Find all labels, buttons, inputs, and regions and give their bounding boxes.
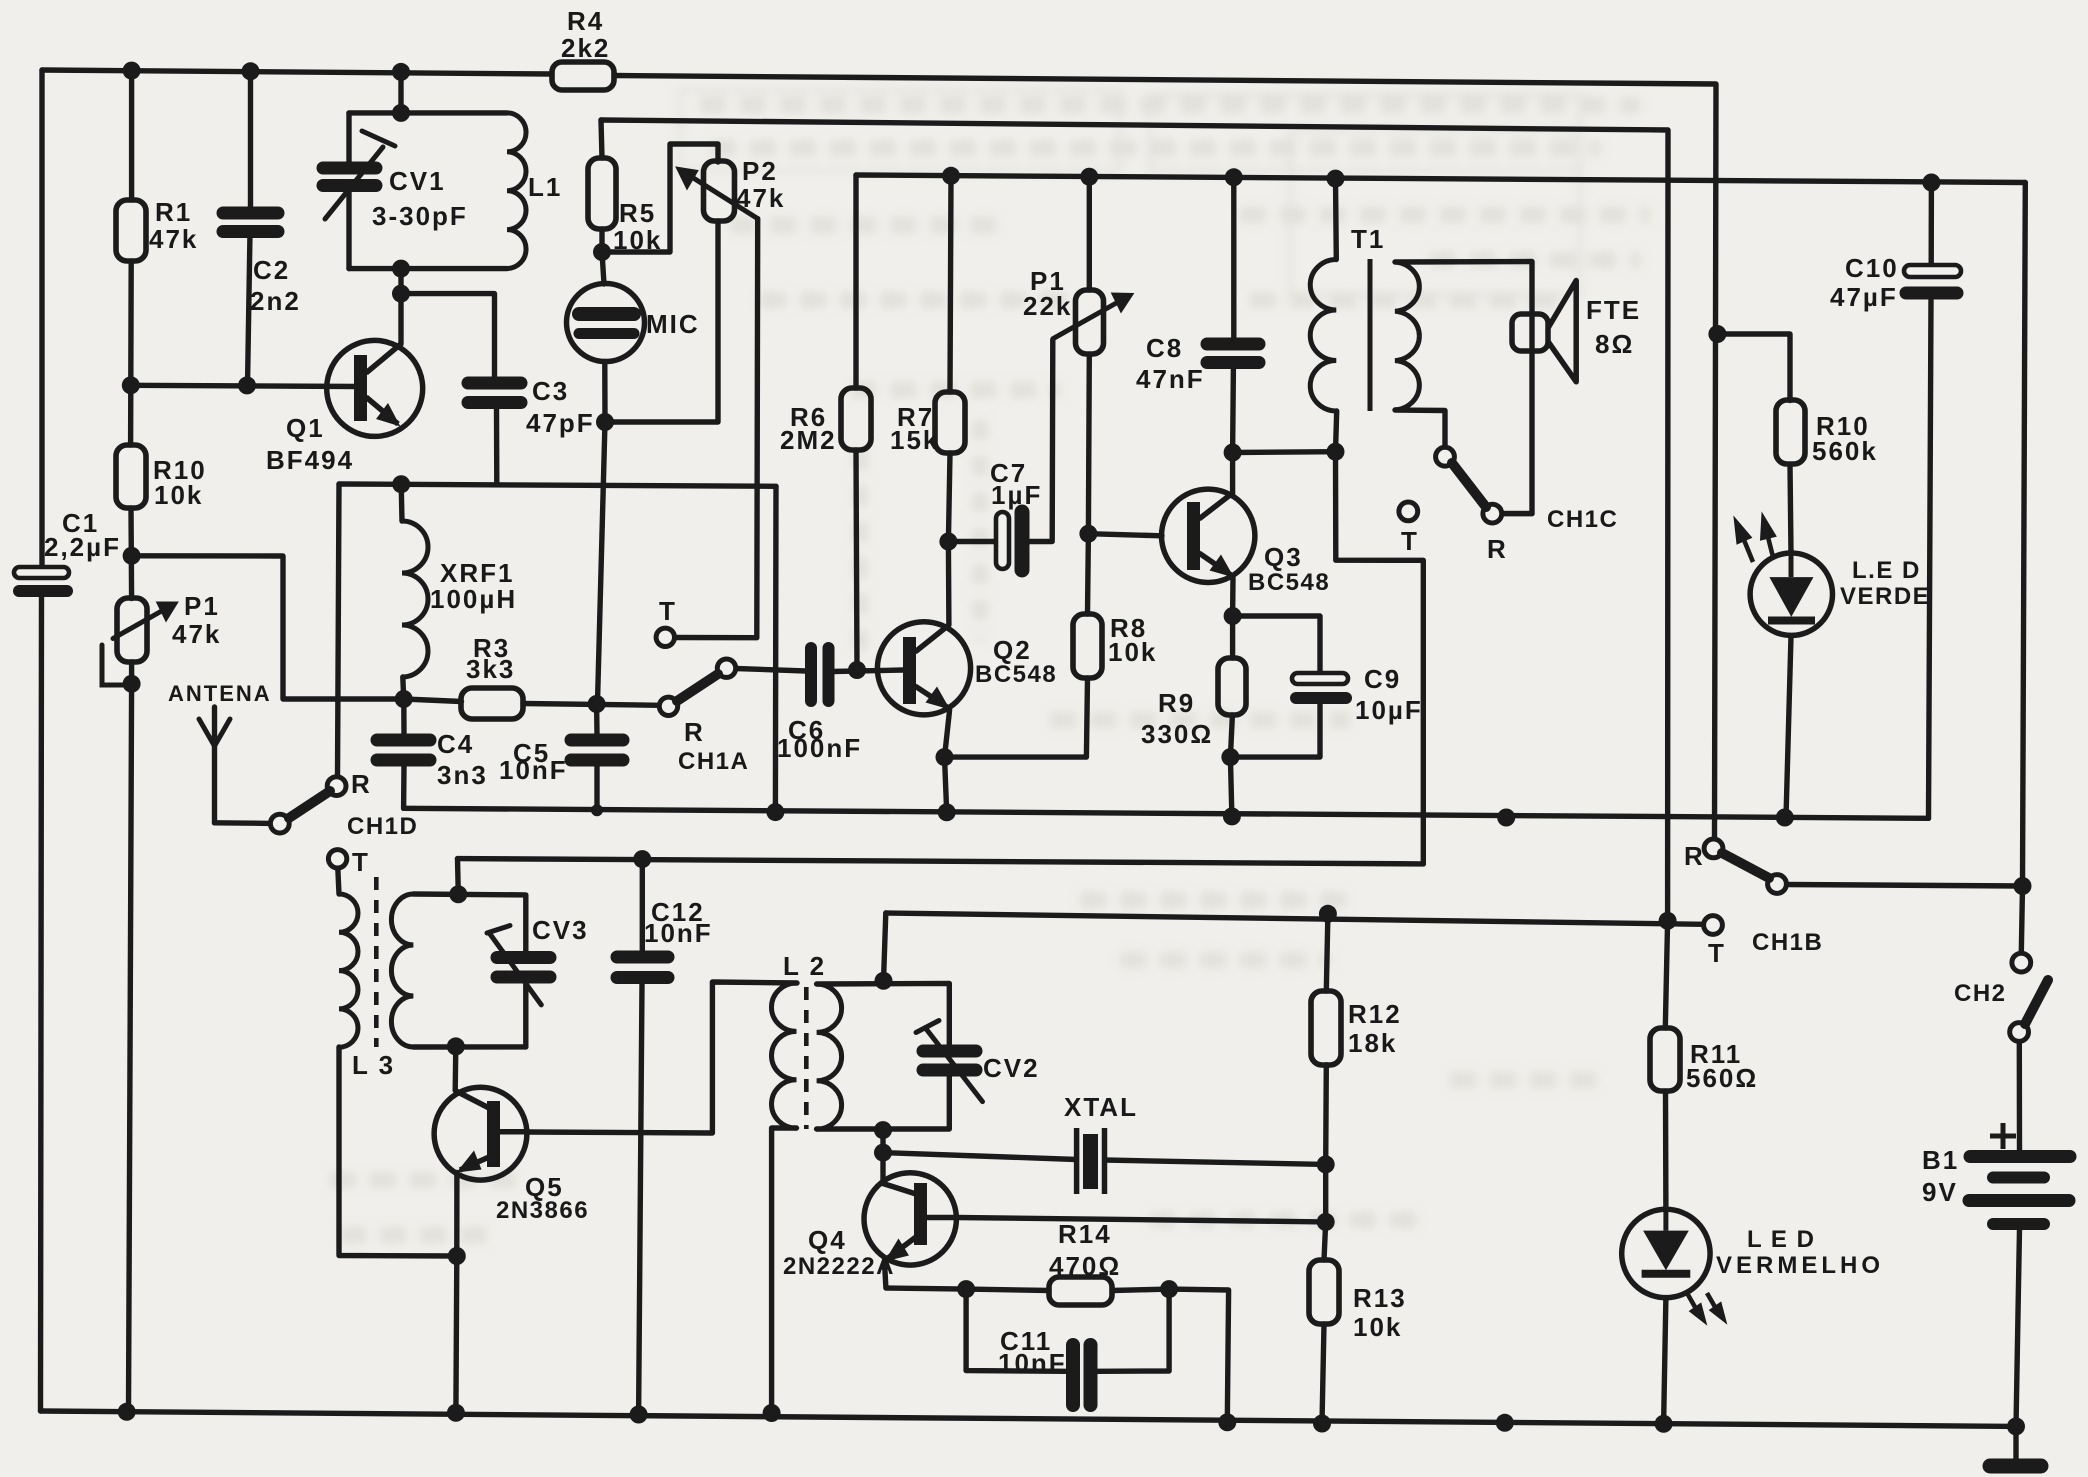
node: R5 / MIC (593, 243, 611, 261)
node: top rail / C2 (242, 62, 260, 80)
node: audio rail / P1 (1080, 168, 1098, 186)
potentiometer P1 (22k) wiper arrow (1053, 293, 1134, 339)
wire: top rail stub to tank loop (398, 71, 403, 113)
svg-text:T1: T1 (1351, 224, 1385, 254)
svg-text:10k: 10k (613, 225, 662, 255)
wire: T1 primary top stub (1333, 179, 1339, 260)
transformer T1 primary winding (1310, 260, 1336, 412)
transistor Q5 2N3866 (mirrored) (434, 1087, 527, 1180)
svg-text:Q4: Q4 (808, 1225, 847, 1255)
svg-text:10nF: 10nF (499, 755, 568, 785)
svg-text:C4: C4 (437, 729, 474, 759)
transistor Q1 BF494 (327, 340, 423, 436)
wire: T1 node down and around to L3 tank top rail (1336, 452, 1424, 864)
wire: R10 560k bottom to LED VERDE (1790, 465, 1791, 553)
LED VERDE emission arrows (1734, 513, 1776, 562)
wire: tee over to C9 top (1233, 616, 1320, 674)
node: Q2 base / C6 / R6 (848, 661, 866, 679)
svg-text:CH1A: CH1A (678, 748, 749, 775)
wire: R6 bottom to Q2 base node (856, 450, 857, 670)
LED VERMELHO (1622, 1209, 1727, 1324)
svg-text:C10: C10 (1845, 253, 1899, 283)
resistor R5 (588, 158, 616, 229)
resistor R7 (935, 392, 965, 453)
inductor XRF1 (402, 521, 428, 677)
svg-text:8Ω: 8Ω (1595, 329, 1634, 359)
switch CH1A (656, 628, 736, 715)
potentiometer P1 (left) wiper arrow and bracket (102, 602, 178, 685)
wire: P2 bottom to MIC bottom node (605, 221, 718, 422)
svg-text:100nF: 100nF (777, 733, 862, 763)
wire: R5 top stub (601, 120, 602, 158)
svg-text:Q1: Q1 (286, 413, 325, 443)
resistor R13 (1309, 1260, 1339, 1324)
capacitor CV2 (variable) (923, 1051, 976, 1070)
wire: Q1 base wire (131, 385, 356, 386)
wire: P1 bottom to R8/Q3 node (1086, 355, 1092, 534)
wire: R12 top lead (1326, 914, 1328, 991)
capacitor CV1 (variable) (323, 168, 376, 186)
svg-text:47k: 47k (149, 224, 198, 254)
node: T1 primary bottom (1327, 443, 1345, 461)
node: Q1 emitter / XRF1 (392, 475, 410, 493)
resistor R10 (560k, right) (1776, 400, 1805, 464)
svg-text:R: R (684, 717, 705, 747)
wire: MIC node to MIC top (602, 252, 604, 284)
svg-text:BF494: BF494 (266, 445, 354, 475)
battery plus sign (1990, 1123, 2016, 1149)
wire: C8 bottom to Q3 collector node (1230, 368, 1236, 453)
transformer L2 secondary winding (bumps outward right) (817, 984, 842, 1129)
node: audio rail / C10 (1922, 174, 1940, 192)
svg-text:T: T (659, 596, 677, 626)
wire: ground rail (404, 808, 1929, 818)
wire: top +V rail left of R4 (42, 70, 552, 74)
svg-text:C8: C8 (1146, 333, 1183, 363)
wire: Q5 collector lead up to tank bottom (453, 1046, 459, 1090)
svg-text:XTAL: XTAL (1064, 1092, 1138, 1122)
node: base wire / C2 (238, 376, 256, 394)
wire: R7 top lead (950, 176, 951, 392)
node: MIC bottom / P2 (596, 413, 614, 431)
node: R14 / C11 right (1160, 1280, 1178, 1298)
svg-text:560Ω: 560Ω (1686, 1063, 1758, 1093)
wire: left border vertical (battery minus rail) (39, 70, 44, 566)
node: Q2 emitter / R8 (936, 748, 954, 766)
node: audio rail / C8 (1225, 168, 1243, 186)
potentiometer P1 body (left) (117, 598, 147, 662)
svg-text:R13: R13 (1353, 1283, 1407, 1313)
svg-text:9V: 9V (1922, 1177, 1958, 1207)
wire: XTAL right lead to R12/R13 column (1105, 1160, 1326, 1164)
wire: C5 stub top (594, 704, 600, 734)
svg-text:FTE: FTE (1586, 295, 1641, 325)
wire: R12 bottom through XTAL and Q4 base nodes to R13 (1324, 1065, 1326, 1260)
wire: P1 22k top lead (1087, 177, 1092, 290)
wire: T1 secondary top through speaker to CH1C R (1395, 262, 1532, 514)
wire: Q4 collector drop (880, 1153, 885, 1184)
svg-text:R5: R5 (619, 198, 656, 228)
svg-text:Q3: Q3 (1264, 542, 1303, 572)
wire: CV1 branch lower (346, 190, 351, 269)
capacitor C10 (electrolytic) (1904, 265, 1961, 293)
node: C5 / ground rail (591, 804, 603, 816)
node: Q2 emitter / ground rail (938, 803, 956, 821)
node: bottom rail / ground drop (1496, 1414, 1514, 1432)
node: L2 secondary top tap (875, 972, 893, 990)
node: R9 / ground rail (1223, 807, 1241, 825)
wire: Q2 collector up to C7 node (946, 542, 952, 626)
capacitor C7 (electrolytic, white + black plate) (996, 512, 1022, 570)
wire: CH1B T rail (y916) (886, 913, 1704, 924)
wire: C3 bottom to emitter wire (494, 408, 500, 484)
node: Q5 emitter / L3 return (448, 1247, 466, 1265)
crystal XTAL (1077, 1128, 1105, 1194)
wire: CV1 branch upper (346, 113, 351, 163)
transformer L2 core (dashed) (804, 987, 809, 1129)
wire: C10 stub from audio +V rail (1928, 183, 1934, 266)
wire: C2 stub from top rail (248, 71, 253, 213)
wire: C5 stub bottom (594, 766, 599, 811)
wire: R3 right lead to C5 tee and CH1A R (523, 704, 660, 706)
wire: CH1B throw to right border (1787, 885, 2023, 887)
node: top rail / R1 (123, 62, 141, 80)
wire: Q5 base to L2 primary top (528, 982, 798, 1133)
svg-text:MIC: MIC (646, 309, 700, 339)
wire: P2 ground leg down to ground rail (773, 486, 779, 812)
capacitor C3 (468, 383, 521, 403)
potentiometer P1 body (22k) (1076, 290, 1104, 354)
resistor R4 (552, 62, 614, 90)
wire: audio +V rail (y175) (856, 175, 2025, 183)
svg-text:2k2: 2k2 (561, 33, 610, 63)
wire: R14 right lead to corner down (1112, 1289, 1228, 1422)
svg-text:470Ω: 470Ω (1049, 1251, 1121, 1281)
svg-text:R14: R14 (1058, 1219, 1112, 1249)
wire: Q1 emitter into XRF1 (399, 484, 405, 521)
battery B1 (1969, 1157, 2070, 1225)
node: P2 leg / ground rail (766, 803, 784, 821)
wire: right border down to CH1B throw junction and CH2 (2021, 183, 2025, 954)
wire: L2 secondary top rail to CV2 branch (817, 983, 950, 1045)
wire: Q4 emitter down to R14 node (885, 1262, 967, 1289)
switch CH2 (2010, 953, 2048, 1041)
node: CH1B T rail / R12 (1319, 905, 1337, 923)
node: R3 / C5 (588, 695, 606, 713)
svg-text:VERMELHO: VERMELHO (1716, 1252, 1884, 1279)
node: P1 bottom (123, 675, 141, 693)
svg-text:T: T (1401, 526, 1419, 556)
node: XRF1 / R3 / C4 (395, 690, 413, 708)
node: XTAL / R12-R13 column (1317, 1155, 1335, 1173)
svg-text:330Ω: 330Ω (1141, 719, 1213, 749)
wire: L3 tank top rail corner down to loop top (455, 859, 461, 895)
node: base wire / bias column (122, 376, 140, 394)
wire: LED VERDE cathode to ground rail (1786, 636, 1791, 818)
capacitor C9 (electrolytic horizontal plates) (1292, 673, 1348, 698)
node: R7 / C7 / Q2 collector (939, 533, 957, 551)
switch CH1D (270, 777, 346, 833)
wire: R13 bottom to bottom rail (1322, 1324, 1324, 1424)
resistor R1 (116, 200, 146, 261)
capacitor C11 (vertical plates) (1073, 1345, 1091, 1405)
node: P1 / R8 / Q3 base (1079, 525, 1097, 543)
resistor R8 (1073, 614, 1102, 678)
svg-text:R9: R9 (1158, 688, 1195, 718)
resistor R3 (461, 688, 523, 719)
node: Q3 collector / C8 (1224, 444, 1242, 462)
svg-text:47µF: 47µF (1830, 282, 1898, 312)
inductor L1 (507, 113, 526, 269)
svg-text:ANTENA: ANTENA (168, 681, 272, 706)
wire: battery minus to bottom rail and terminal (2016, 1229, 2020, 1461)
node: +V vertical / R10 560k stub (1708, 325, 1726, 343)
svg-text:2,2µF: 2,2µF (44, 532, 121, 562)
node: Q4 base / R12-R13 column (1317, 1213, 1335, 1231)
svg-text:L 2: L 2 (783, 951, 826, 981)
LED VERDE (1734, 513, 1833, 635)
battery negative terminal bar (1990, 1459, 2041, 1474)
wire: C2 bottom to Q1 base wire (248, 232, 251, 385)
wire: node to R8 top (1085, 534, 1091, 614)
node: bias column / antenna net (123, 547, 141, 565)
wire: CH1C R to speaker line (1502, 511, 1532, 516)
svg-text:2N2222A: 2N2222A (783, 1253, 895, 1280)
svg-text:3k3: 3k3 (466, 654, 515, 684)
svg-text:R4: R4 (567, 6, 604, 36)
transistor Q3 BC548 (1162, 489, 1255, 582)
svg-text:VERDE: VERDE (1840, 583, 1930, 610)
wire: R14 left lead (966, 1289, 1049, 1290)
wire: R10 bottom through node to P1 top (128, 508, 134, 599)
CV1 adjust arrow (325, 147, 383, 219)
wire: Q3 emitter down to R9/C9 tee (1230, 578, 1236, 616)
potentiometer P2 wiper arrow (676, 167, 758, 219)
node: bottom rail / L2 primary (763, 1404, 781, 1422)
svg-text:1µF: 1µF (991, 480, 1042, 510)
capacitor C1 (electrolytic) (14, 567, 69, 591)
svg-text:CH1B: CH1B (1752, 929, 1823, 956)
node: CH1B throw / right border (2014, 877, 2032, 895)
wire: R5 bottom to MIC node (599, 229, 604, 252)
wire: C11 left loop (966, 1289, 1065, 1371)
transformer L3 primary winding (left, bumps inward) (339, 894, 358, 1047)
wire: LED VERMELHO cathode to bottom rail (1664, 1298, 1666, 1424)
svg-text:100µH: 100µH (430, 584, 517, 614)
svg-text:R: R (351, 769, 372, 799)
wire: C4 bottom to ground rail corner (401, 766, 407, 809)
transformer L2 primary winding (bumps outward left) (772, 983, 797, 1128)
wire: C4 stub top (401, 699, 407, 734)
wire: C12 bottom to bottom rail (639, 984, 642, 1415)
node: bottom rail / R13 (1313, 1415, 1331, 1433)
wire: P2 wiper leg down to CH1A T (675, 219, 758, 638)
CV2 adjust arrow (926, 1028, 983, 1101)
wire: XRF1 bottom (400, 677, 406, 699)
svg-text:L.E D: L.E D (1852, 557, 1921, 584)
svg-text:560k: 560k (1812, 436, 1878, 466)
node: R9 / C9 bottom (1221, 748, 1239, 766)
wire: tank bottom to C3 tee and Q1 collector (398, 269, 403, 344)
node: bottom rail / battery (2007, 1417, 2025, 1435)
wire: emitter rail left leg down to CH1D R (338, 484, 340, 777)
node: top rail / tank (392, 63, 410, 81)
wire: antenna stem (212, 707, 217, 823)
transformer L3 core (dashed) (374, 877, 379, 1047)
wire: CV2 bottom to L2 secondary bottom (817, 1075, 950, 1129)
terminal T of CH1D (to transmit oscillator) (328, 850, 346, 868)
transformer L3 secondary winding (right, bumps inward) (391, 894, 413, 1047)
svg-text:P2: P2 (742, 156, 778, 186)
svg-text:C3: C3 (532, 376, 569, 406)
resistor R11 (1650, 1028, 1680, 1091)
wire: T/R11 rail (y120) and right leg down (601, 120, 1668, 1028)
wire: Q5 emitter lead down (454, 1173, 460, 1257)
wire: L3 primary bottom to Q5 emitter node (339, 1047, 457, 1256)
speaker FTE (1512, 281, 1576, 382)
node: tank rail / C12 (633, 850, 651, 868)
wire: L3/CV3 loop top (413, 894, 525, 951)
wire: R7 bottom to C7 node (948, 453, 950, 542)
wire: CH1B T rail left leg down to L2 secondary top (884, 913, 886, 981)
svg-text:P1: P1 (184, 591, 220, 621)
node: LED VERDE / ground rail (1776, 809, 1794, 827)
svg-text:47pF: 47pF (526, 408, 595, 438)
wire: tee to C3 top (401, 294, 495, 377)
wire: Q4 base to R13 node (957, 1218, 1326, 1222)
capacitor C6 (vertical plates) (811, 648, 829, 701)
wire: C7 node to C7 left plate (948, 539, 996, 544)
wire: CV3 bottom branch (523, 984, 528, 1047)
svg-text:10µF: 10µF (1355, 695, 1423, 725)
svg-text:CV1: CV1 (389, 166, 446, 196)
CV3 adjust arrow (490, 934, 541, 1005)
wire: L2 primary bottom to bottom rail (772, 1128, 797, 1413)
node: audio rail / R7 (942, 167, 960, 185)
wire: T1 primary bottom to node (1336, 411, 1337, 452)
microphone MIC (567, 284, 645, 362)
wire: L2 secondary bottom tap down to XTAL tee (880, 1130, 885, 1153)
svg-text:3-30pF: 3-30pF (372, 201, 468, 231)
capacitor C8 (1207, 344, 1259, 363)
wire: R11 bottom to LED VERMELHO (1663, 1091, 1669, 1210)
resistor R10 (10k, left column) (116, 445, 146, 508)
svg-text:L1: L1 (528, 172, 562, 202)
node: bottom rail / R14-C11 (1218, 1413, 1236, 1431)
svg-text:10k: 10k (154, 480, 203, 510)
svg-text:10k: 10k (1108, 637, 1157, 667)
wire: Q3 collector lead up (1230, 453, 1235, 497)
wire: bottom ground rail (41, 1411, 2017, 1426)
node: XTAL tee (874, 1144, 892, 1162)
wire: C12 top stub from tank rail (640, 859, 645, 951)
wire: oscillator tank top rail (y861) (458, 859, 1424, 864)
wire: C9 bottom to node (1230, 703, 1320, 757)
wire: MIC bottom to C5 node (598, 362, 606, 703)
node: CH1B T rail / R11 leg (1659, 912, 1677, 930)
node: bottom rail / Q5 emitter (447, 1404, 465, 1422)
svg-text:L 3: L 3 (352, 1050, 395, 1080)
svg-text:47k: 47k (172, 619, 221, 649)
node: L3 tank bottom / Q5 collector (447, 1037, 465, 1055)
svg-text:2M2: 2M2 (780, 425, 837, 455)
wire: C7 right plate to P1 wiper leg (1030, 340, 1053, 542)
transistor Q2 BC548 (877, 622, 970, 715)
wire: P1 bottom node down to bottom rail (129, 662, 132, 1412)
node: tank top (392, 104, 410, 122)
svg-text:CH1C: CH1C (1547, 506, 1618, 533)
svg-text:47nF: 47nF (1136, 364, 1205, 394)
wire: R5/MIC node over to P2 top (602, 144, 718, 252)
svg-text:2n2: 2n2 (250, 286, 301, 316)
wire: bias column x=131 top to R1 (129, 70, 134, 200)
svg-text:T: T (1708, 938, 1726, 968)
wire: R3 left lead (404, 699, 462, 702)
node: C3 tee (392, 285, 410, 303)
wire: CH1D pole to antenna (215, 820, 271, 826)
capacitor C5 (571, 740, 623, 760)
potentiometer P2 body (704, 161, 735, 221)
node: bottom rail / C12 (630, 1406, 648, 1424)
wire: R9 bottom to node (1230, 715, 1232, 757)
wire: R10 560k stub from top-right vertical (1717, 334, 1791, 401)
wire: XTAL left lead (883, 1153, 1077, 1160)
svg-text:CV3: CV3 (532, 915, 589, 945)
wire: CH2 bottom to battery (2017, 1041, 2023, 1152)
svg-text:R12: R12 (1348, 999, 1402, 1029)
wire: CH1D T to L3 primary top (338, 868, 339, 894)
node: ground rail / drop wire (1497, 809, 1515, 827)
transformer T1 secondary winding (1395, 262, 1419, 410)
svg-text:CH1D: CH1D (347, 813, 418, 840)
svg-text:R: R (1684, 841, 1705, 871)
wire: Q5 emitter node to bottom rail (453, 1256, 459, 1413)
wire: T1 secondary bottom to CH1C pole (1395, 410, 1445, 448)
wire: node to Q3 base (1088, 534, 1162, 536)
transistor Q4 2N2222A (mirrored) (864, 1173, 957, 1265)
wire: C10 bottom to ground rail (1929, 299, 1932, 818)
wire: left border below C1 (41, 597, 42, 1411)
svg-text:BC548: BC548 (1248, 569, 1330, 596)
svg-text:T: T (352, 847, 370, 877)
transformer T1 core (1368, 259, 1373, 411)
svg-text:10nF: 10nF (644, 918, 713, 948)
svg-text:22k: 22k (1023, 291, 1072, 321)
wire: C11 right loop (1098, 1289, 1170, 1371)
node: Q3 emitter / R9 / C9 (1224, 607, 1242, 625)
wire: R8 bottom to Q2 emitter node (945, 678, 1088, 757)
svg-text:10nF: 10nF (998, 1348, 1067, 1378)
svg-text:L E D: L E D (1747, 1226, 1815, 1253)
ghost bleed-through (decorative, from page verso) (330, 90, 1650, 1235)
svg-text:15k: 15k (890, 425, 939, 455)
wire: C8 top stub (1231, 177, 1236, 338)
svg-text:B1: B1 (1922, 1145, 1959, 1175)
wire: CV1/L1 tank bottom (349, 266, 507, 271)
svg-text:2N3866: 2N3866 (496, 1197, 589, 1224)
antenna ANTENA symbol (199, 719, 230, 746)
svg-text:3n3: 3n3 (437, 760, 488, 790)
switch CH1B (1704, 839, 1787, 934)
wire: antenna net from bias column (132, 556, 404, 699)
wire: R9 top lead (1230, 616, 1235, 658)
node: audio rail / T1 (1327, 170, 1345, 188)
svg-text:R: R (1487, 534, 1508, 564)
svg-text:18k: 18k (1348, 1028, 1397, 1058)
wire: Q2 emitter down (945, 710, 950, 812)
node: bottom rail / LED VERMELHO (1655, 1415, 1673, 1433)
wire: R1 bottom through base node to R10 top (128, 261, 134, 445)
